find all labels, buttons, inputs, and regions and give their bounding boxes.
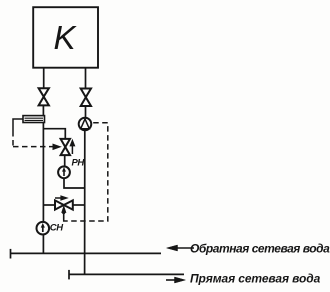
wire mixer line left (43, 204, 55, 206)
svg-text:PH: PH (72, 157, 86, 168)
boiler K box (33, 7, 98, 67)
nozzle (hatched box) (23, 116, 45, 123)
wire PH valve to PH pump (64, 155, 66, 166)
impulse line from nozzle to PH valve (13, 119, 60, 149)
return water line (11, 249, 162, 259)
svg-text:K: K (54, 19, 78, 56)
control valve PH (61, 139, 70, 155)
pump CH (37, 222, 50, 235)
valve V1 (39, 88, 49, 105)
three-way mixing valve (55, 200, 73, 209)
pump (circulation) on right pipe (79, 118, 92, 131)
wire branch to PH valve (43, 129, 65, 139)
wire right pipe from boiler (85, 68, 87, 89)
supply flow arrow (166, 277, 185, 283)
wire PH pump to right pipe (64, 178, 85, 188)
arrow above three-way valve (55, 196, 68, 200)
pump PH (58, 166, 70, 178)
flow direction arrow beside PH valve (70, 140, 75, 154)
svg-text:CH: CH (50, 223, 64, 234)
dashed impulse line three-way valve to pump (64, 123, 108, 221)
svg-text:Обратная сетевая вода: Обратная сетевая вода (190, 242, 330, 256)
svg-text:Прямая сетевая вода: Прямая сетевая вода (190, 272, 321, 286)
valve stem with junction dot (62, 207, 66, 220)
wire mixer line right (73, 204, 85, 206)
valve V2 (81, 89, 91, 107)
wire right pipe down (84, 106, 87, 275)
wire left pipe down to return line (42, 105, 44, 253)
return flow arrow (167, 245, 194, 251)
wire left pipe from boiler (43, 68, 45, 89)
supply water line (69, 270, 184, 280)
